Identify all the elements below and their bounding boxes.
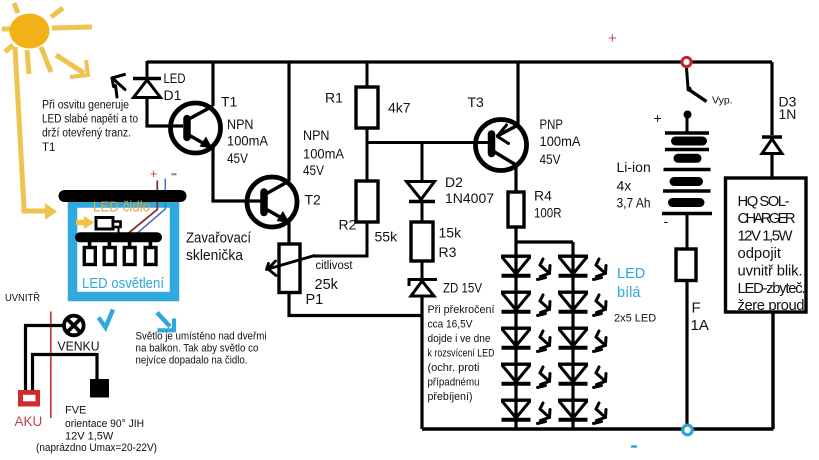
svg-text:100mA: 100mA xyxy=(303,146,345,162)
svg-text:(ochr. proti: (ochr. proti xyxy=(428,362,480,374)
wire: D2 to R3 xyxy=(421,201,424,222)
svg-text:LED: LED xyxy=(617,266,645,282)
wire: feed down to D2 xyxy=(421,143,424,182)
svg-text:F: F xyxy=(692,300,701,317)
strip LED 1 xyxy=(88,241,92,249)
zener ZD 15V xyxy=(409,280,437,297)
svg-text:+: + xyxy=(654,110,662,126)
T2 labels NPN 100mA 45V xyxy=(303,127,345,178)
svg-text:45V: 45V xyxy=(227,150,249,166)
svg-text:100mA: 100mA xyxy=(540,133,582,149)
wire: T3 collector to R4 xyxy=(514,165,517,192)
resistor R3 xyxy=(411,222,433,261)
svg-text:žere proud: žere proud xyxy=(738,298,805,314)
annotation text: Pri prekroceni xyxy=(428,304,495,403)
svg-text:LED: LED xyxy=(164,70,186,86)
wire: base feed to T3 xyxy=(367,141,489,144)
svg-text:Světlo je umístěno nad dveřmi: Světlo je umístěno nad dveřmi xyxy=(136,331,267,343)
sun rays xyxy=(2,3,92,74)
annotation arrow at LED D1 xyxy=(112,75,125,98)
LED column 2 wire xyxy=(571,242,574,429)
svg-text:orientace 90° JIH: orientace 90° JIH xyxy=(65,418,144,430)
wire: T2 collector to top xyxy=(287,62,290,181)
wire: HQ box to bottom bus xyxy=(771,312,774,429)
wire: R4 to LED top bus xyxy=(514,227,517,242)
svg-text:100R: 100R xyxy=(534,205,562,221)
jar blue wire xyxy=(134,179,165,237)
svg-text:citlivost: citlivost xyxy=(316,260,354,272)
svg-text:uvnitř blik.: uvnitř blik. xyxy=(738,263,803,279)
battery Li-ion stack xyxy=(662,118,712,249)
strip LED 3 xyxy=(128,241,132,249)
FVE panel xyxy=(90,379,109,398)
LED 4a with light arrows xyxy=(501,364,531,384)
svg-text:odpojit: odpojit xyxy=(738,246,782,262)
jar lid xyxy=(65,190,181,202)
transistor T1 xyxy=(171,103,221,153)
diode D2 xyxy=(407,182,436,202)
svg-text:bílá: bílá xyxy=(617,285,641,301)
svg-text:NPN: NPN xyxy=(303,127,330,143)
fuse F xyxy=(676,249,696,281)
wire: D1 to T1 base xyxy=(147,97,183,127)
svg-text:Zavařovací: Zavařovací xyxy=(186,230,252,247)
svg-text:D1: D1 xyxy=(164,87,182,103)
wire: R3 to ZD xyxy=(421,261,424,279)
wire: D3 to HQ box xyxy=(770,154,773,179)
svg-text:HQ SOL-: HQ SOL- xyxy=(738,194,790,210)
red divider line xyxy=(50,312,52,419)
svg-text:(naprázdno Umax=20-22V): (naprázdno Umax=20-22V) xyxy=(36,442,157,454)
svg-text:drží otevřený tranz.: drží otevřený tranz. xyxy=(42,128,131,140)
svg-text:T3: T3 xyxy=(468,94,485,110)
svg-text:4x: 4x xyxy=(617,178,632,194)
text Zavarovaci sklenicka xyxy=(186,230,252,265)
LED D1 xyxy=(133,79,161,98)
svg-text:nejvíce dopadalo na čidlo.: nejvíce dopadalo na čidlo. xyxy=(136,355,248,367)
svg-text:VENKU: VENKU xyxy=(58,339,100,354)
svg-text:1N: 1N xyxy=(779,106,797,122)
AKU battery box xyxy=(18,390,40,407)
sun body xyxy=(10,14,50,49)
wire: fuse to node xyxy=(685,281,688,430)
switch node (red) xyxy=(682,57,691,66)
LED column 1 wire xyxy=(514,242,517,429)
svg-text:R2: R2 xyxy=(339,217,357,233)
LED sensor xyxy=(96,218,113,230)
svg-text:3,7 Ah: 3,7 Ah xyxy=(617,195,651,211)
svg-text:T1: T1 xyxy=(42,142,55,154)
LED 1a with light arrows xyxy=(501,256,531,276)
svg-text:Li-ion: Li-ion xyxy=(617,159,651,175)
HQ box text xyxy=(738,194,806,314)
wire: top to R1 xyxy=(366,62,369,87)
wire: lamp to AKU xyxy=(26,326,65,392)
LED 5a with light arrows xyxy=(501,400,531,420)
LED 2b with light arrows xyxy=(558,292,588,312)
lamp symbol xyxy=(64,316,84,336)
svg-text:přebíjení): přebíjení) xyxy=(428,391,473,403)
wire: R1 to R2 xyxy=(366,128,369,181)
resistor R2 xyxy=(356,181,378,222)
LED 4b with light arrows xyxy=(558,364,588,384)
svg-text:LED osvětlení: LED osvětlení xyxy=(82,275,165,292)
LED strip bar xyxy=(80,232,157,242)
T1 labels NPN 100mA 45V xyxy=(227,116,269,166)
svg-text:R4: R4 xyxy=(534,188,552,204)
svg-text:Při osvitu generuje: Při osvitu generuje xyxy=(42,100,129,112)
svg-text:FVE: FVE xyxy=(65,405,86,417)
svg-text:4k7: 4k7 xyxy=(388,100,411,116)
svg-text:AKU: AKU xyxy=(15,414,43,429)
svg-text:-: - xyxy=(664,213,669,229)
transistor T2 xyxy=(247,177,297,227)
jar - label xyxy=(172,173,177,175)
svg-text:P1: P1 xyxy=(306,292,324,308)
wire: T2 emitter to P1 xyxy=(287,221,290,244)
wire: wiper to R2 bottom xyxy=(313,222,367,256)
cyan node bottom xyxy=(683,425,693,435)
svg-text:na balkon. Tak aby světlo co: na balkon. Tak aby světlo co xyxy=(136,343,259,355)
strip LED 2 xyxy=(108,241,112,249)
diode D3 xyxy=(762,137,782,154)
LED 3b with light arrows xyxy=(558,328,588,348)
cyan minus mark xyxy=(631,445,637,447)
svg-text:ZD 15V: ZD 15V xyxy=(443,280,483,296)
svg-text:R1: R1 xyxy=(325,90,343,106)
wire: T3 emitter to top xyxy=(516,62,519,125)
svg-text:12V 1,5W: 12V 1,5W xyxy=(738,229,793,245)
svg-text:2x5 LED: 2x5 LED xyxy=(614,313,656,325)
svg-text:k rozsvícení LED: k rozsvícení LED xyxy=(428,348,495,360)
battery + terminal dot xyxy=(684,111,692,119)
svg-text:+: + xyxy=(608,30,617,47)
svg-text:PNP: PNP xyxy=(540,116,564,132)
LED 1b with light arrows xyxy=(558,256,588,276)
svg-text:45V: 45V xyxy=(540,151,562,167)
svg-text:15k: 15k xyxy=(439,225,463,241)
svg-text:T2: T2 xyxy=(305,192,322,208)
LED 2a with light arrows xyxy=(501,292,531,312)
bottom bus wire xyxy=(422,427,774,430)
svg-text:Vyp.: Vyp. xyxy=(712,95,733,107)
wire: T1 emitter down to T2 base xyxy=(213,147,262,201)
svg-text:NPN: NPN xyxy=(227,116,254,132)
svg-text:LED čidlo: LED čidlo xyxy=(93,200,150,216)
svg-text:případnému: případnému xyxy=(428,377,480,389)
svg-text:CHARGER: CHARGER xyxy=(738,211,796,227)
svg-text:dojde i ve dne: dojde i ve dne xyxy=(428,333,491,345)
sun long ray with arrow to jar xyxy=(15,47,46,211)
wire: T1 collector to top xyxy=(211,62,214,106)
resistor R1 xyxy=(356,87,378,128)
svg-text:R3: R3 xyxy=(439,244,457,260)
annotation text: Svetlo je umisteno xyxy=(136,331,267,367)
svg-text:1N4007: 1N4007 xyxy=(445,190,494,206)
LED array top bus xyxy=(515,240,574,243)
transistor T3 (PNP) xyxy=(476,120,527,171)
wire: FVE to AKU xyxy=(33,355,98,392)
svg-text:+: + xyxy=(150,167,157,181)
label LED bila xyxy=(617,266,645,301)
LED 3a with light arrows xyxy=(501,328,531,348)
svg-text:12V 1,5W: 12V 1,5W xyxy=(65,431,114,443)
svg-text:1A: 1A xyxy=(691,317,709,334)
svg-text:D2: D2 xyxy=(445,174,463,190)
svg-text:25k: 25k xyxy=(315,277,339,293)
switch Vyp. xyxy=(687,68,707,102)
svg-text:UVNITŘ: UVNITŘ xyxy=(5,291,40,304)
wire: top right corner to D3 xyxy=(770,62,773,135)
annotation text: Pri osvitu xyxy=(42,100,138,154)
resistor R4 xyxy=(508,192,524,227)
svg-text:45V: 45V xyxy=(303,162,325,178)
FVE labels xyxy=(36,405,157,455)
svg-text:T1: T1 xyxy=(221,94,238,110)
svg-text:100mA: 100mA xyxy=(227,133,269,149)
wire: ZD down to bottom bus xyxy=(420,296,423,429)
HQ solar charger box xyxy=(726,178,807,312)
svg-text:cca 16,5V: cca 16,5V xyxy=(428,319,474,331)
cyan arrow 2 (down-right) xyxy=(157,313,174,331)
top supply wire xyxy=(147,60,772,63)
jar red wire xyxy=(128,181,157,234)
sun ray arrow (down-right) xyxy=(70,60,88,77)
jar glass (cyan frame) xyxy=(73,203,175,297)
potentiometer P1 xyxy=(279,244,300,293)
strip LED 4 xyxy=(149,241,153,249)
P1 wiper arrow xyxy=(267,256,315,276)
battery labels Li-ion 4x 3,7Ah xyxy=(617,159,651,211)
svg-text:Při překročení: Při překročení xyxy=(428,304,495,316)
svg-text:55k: 55k xyxy=(375,229,399,245)
T3 labels PNP 100mA 45V xyxy=(540,116,582,167)
wire: P1 bottom to zener column xyxy=(289,293,423,316)
svg-text:sklenička: sklenička xyxy=(186,247,244,264)
LED 5b with light arrows xyxy=(558,400,588,420)
yellow arrow to sensor xyxy=(76,220,85,226)
cyan arrow 1 (check) xyxy=(99,310,114,328)
wire: down to FVE xyxy=(95,353,98,379)
svg-text:LED slabé napětí a to: LED slabé napětí a to xyxy=(42,114,138,126)
wire: top to LED D1 xyxy=(146,61,149,77)
svg-text:LED-zbyteč.: LED-zbyteč. xyxy=(738,281,806,297)
